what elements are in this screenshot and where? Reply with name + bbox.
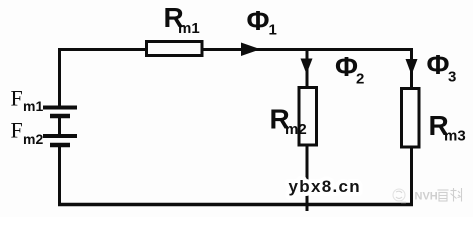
mmf source F_m2 plates xyxy=(43,136,77,145)
wire left vertical upper xyxy=(58,48,61,107)
mmf source F_m1 plates xyxy=(43,108,77,117)
svg-text:F: F xyxy=(11,86,23,111)
glyph 百 xyxy=(438,190,449,201)
label NVH百科 xyxy=(415,191,438,203)
label Φ1 xyxy=(247,5,277,39)
label R_m1 xyxy=(164,2,200,37)
wire middle branch vertical xyxy=(306,48,309,211)
label R_m2 xyxy=(270,104,307,139)
wire right branch vertical xyxy=(410,48,413,206)
resistor R_m2 body xyxy=(299,88,317,146)
resistor R_m3 body xyxy=(402,89,420,148)
label F_m1 xyxy=(11,86,44,115)
resistor R_m1 body xyxy=(147,42,203,56)
flux arrow head Φ3 (down) xyxy=(406,59,418,75)
svg-text:F: F xyxy=(11,118,23,143)
svg-text:m1: m1 xyxy=(178,20,200,37)
flux arrow head Φ1 (right) xyxy=(241,43,261,57)
glyph 科 xyxy=(451,188,462,202)
svg-text:m3: m3 xyxy=(444,128,466,145)
flux arrow head Φ2 (down) xyxy=(301,59,313,75)
logo NVH百科 icon xyxy=(393,189,406,203)
svg-text:Φ: Φ xyxy=(427,49,450,80)
wire between battery cells xyxy=(58,116,61,136)
wire bottom horizontal xyxy=(58,203,413,207)
wire top horizontal xyxy=(58,48,413,51)
label Φ3 xyxy=(427,49,457,86)
svg-text:2: 2 xyxy=(356,71,364,88)
label R_m3 xyxy=(429,110,466,145)
wire left vertical lower xyxy=(58,145,61,206)
label F_m2 xyxy=(11,118,44,148)
svg-text:m2: m2 xyxy=(23,131,43,147)
svg-text:ybx8.cn: ybx8.cn xyxy=(289,177,361,196)
svg-text:Φ: Φ xyxy=(335,51,358,82)
svg-text:3: 3 xyxy=(448,69,456,86)
svg-text:Φ: Φ xyxy=(247,5,270,36)
svg-text:m1: m1 xyxy=(23,98,43,114)
label Φ2 xyxy=(335,51,364,88)
watermark ybx8.cn xyxy=(289,177,361,196)
svg-text:1: 1 xyxy=(269,22,277,39)
svg-text:NVH: NVH xyxy=(415,191,438,203)
svg-text:m2: m2 xyxy=(285,121,307,138)
